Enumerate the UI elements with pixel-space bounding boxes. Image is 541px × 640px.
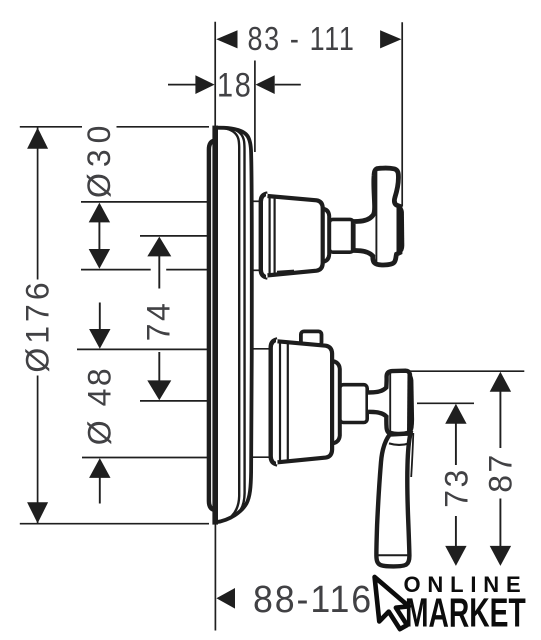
T-handle bar end (black) (397, 205, 405, 254)
lever arm ring 2 (389, 443, 410, 445)
dimension 87 arrow up (490, 372, 511, 392)
valve body outline (278, 341, 333, 462)
thermostat stem (329, 219, 353, 252)
lever hub inner contour (389, 374, 391, 432)
lever arm outer right line (411, 433, 413, 477)
lever arm ring 1 (389, 431, 410, 433)
svg-text:88-116: 88-116 (253, 579, 373, 621)
valve sleeve flange (271, 339, 278, 464)
lever hub outline lower (368, 412, 389, 433)
dimension 73 arrow down (455, 516, 457, 548)
extension line left (wall plane) x=215 top (214, 22, 216, 127)
extension line knob top connector right of plate (250, 200, 260, 202)
logo cursor (375, 574, 412, 631)
plate dome outer (216, 128, 252, 523)
svg-text:MARKET: MARKET (405, 591, 526, 636)
dimension D176 line upper (37, 128, 39, 280)
T-handle inner contour (375, 172, 377, 263)
dimension D48 arrow lower (89, 458, 110, 478)
dimension 83-111 arrow left (216, 30, 237, 48)
thermostat knob collar ring (322, 209, 329, 263)
valve cone ring 1 (279, 342, 281, 462)
extension line valve top connector right of plate (253, 348, 270, 350)
T-handle grip (353, 168, 400, 265)
svg-text:Ø30: Ø30 (81, 120, 117, 198)
extension line valve top y=349.5 (77, 348, 210, 350)
thermostat sleeve flange (261, 194, 268, 278)
dimension 87 arrow down (499, 499, 501, 549)
dimension 83-111 arrow right (380, 30, 401, 48)
svg-text:Ø176: Ø176 (20, 278, 56, 372)
dimension 73 arrow up (445, 404, 466, 424)
lever hub bar end (black) (407, 372, 414, 434)
extension line valve bottom y=457.5 (82, 457, 210, 459)
plate inner contour 1 (227, 129, 239, 516)
dimension 18 leader right (275, 84, 301, 86)
dimension D176 arrow down (27, 502, 48, 523)
dimension 18 leader left (168, 84, 197, 86)
valve collar ring (331, 361, 340, 444)
extension line right of T-handle x=402 (401, 22, 403, 206)
thermostat knob body fill (266, 194, 323, 278)
thermostat cone ring 1 (269, 195, 271, 277)
extension line wall plane bottom x=215 (214, 524, 216, 631)
svg-text:18: 18 (217, 67, 253, 105)
valve body fill (276, 339, 332, 464)
thermostat cone ring 2 (274, 196, 276, 276)
svg-text:74: 74 (140, 301, 176, 342)
dimension D48 arrow upper (99, 303, 101, 331)
dimension D176 line lower (37, 376, 39, 524)
extension line thermostat axis y=236 (140, 235, 210, 237)
dimension 88-116 arrow left (216, 588, 235, 609)
dimension 18 arrow right (256, 75, 275, 94)
svg-text:83 - 111: 83 - 111 (248, 20, 356, 57)
extension line bottom of plate y=523.5 (20, 523, 209, 525)
extension line 87 top y=371 (409, 370, 524, 372)
dimension D30 double arrow (89, 203, 110, 223)
extension line 73 top y=403 (417, 402, 474, 404)
dimension 18 arrow left (195, 75, 214, 94)
extension line knob top y=202 (81, 201, 209, 203)
lever hub outline upper (368, 371, 412, 432)
dimension 74 arrow down (158, 352, 160, 382)
extension line knob bottom y=269.5 (81, 269, 210, 271)
wall flange outline (209, 141, 214, 510)
plate inner contour 2 (236, 130, 245, 512)
valve stop nub (301, 331, 322, 345)
extension line valve axis y=401 (140, 400, 210, 402)
svg-text:87: 87 (483, 452, 519, 493)
lever hub fill (368, 371, 412, 435)
lever tip joint line (377, 554, 409, 556)
valve cone ring 2 (287, 343, 289, 461)
svg-text:Ø 48: Ø 48 (81, 366, 117, 445)
extension line valve bottom connector right of plate (253, 456, 270, 458)
valve stem (340, 385, 367, 423)
escutcheon plate back band (212, 126, 218, 525)
dimension D176 arrow up (27, 128, 48, 149)
svg-text:73: 73 (438, 467, 474, 508)
lever arm (376, 433, 410, 566)
extension line top of plate y=127 (20, 126, 209, 128)
thermostat knob body outline (268, 196, 323, 275)
dimension 74 arrow up (147, 237, 171, 257)
thermostat knob bottom tick (277, 271, 294, 272)
extension line knob bottom connector right of plate (250, 269, 260, 271)
extension line plate front x=255 (254, 61, 256, 153)
